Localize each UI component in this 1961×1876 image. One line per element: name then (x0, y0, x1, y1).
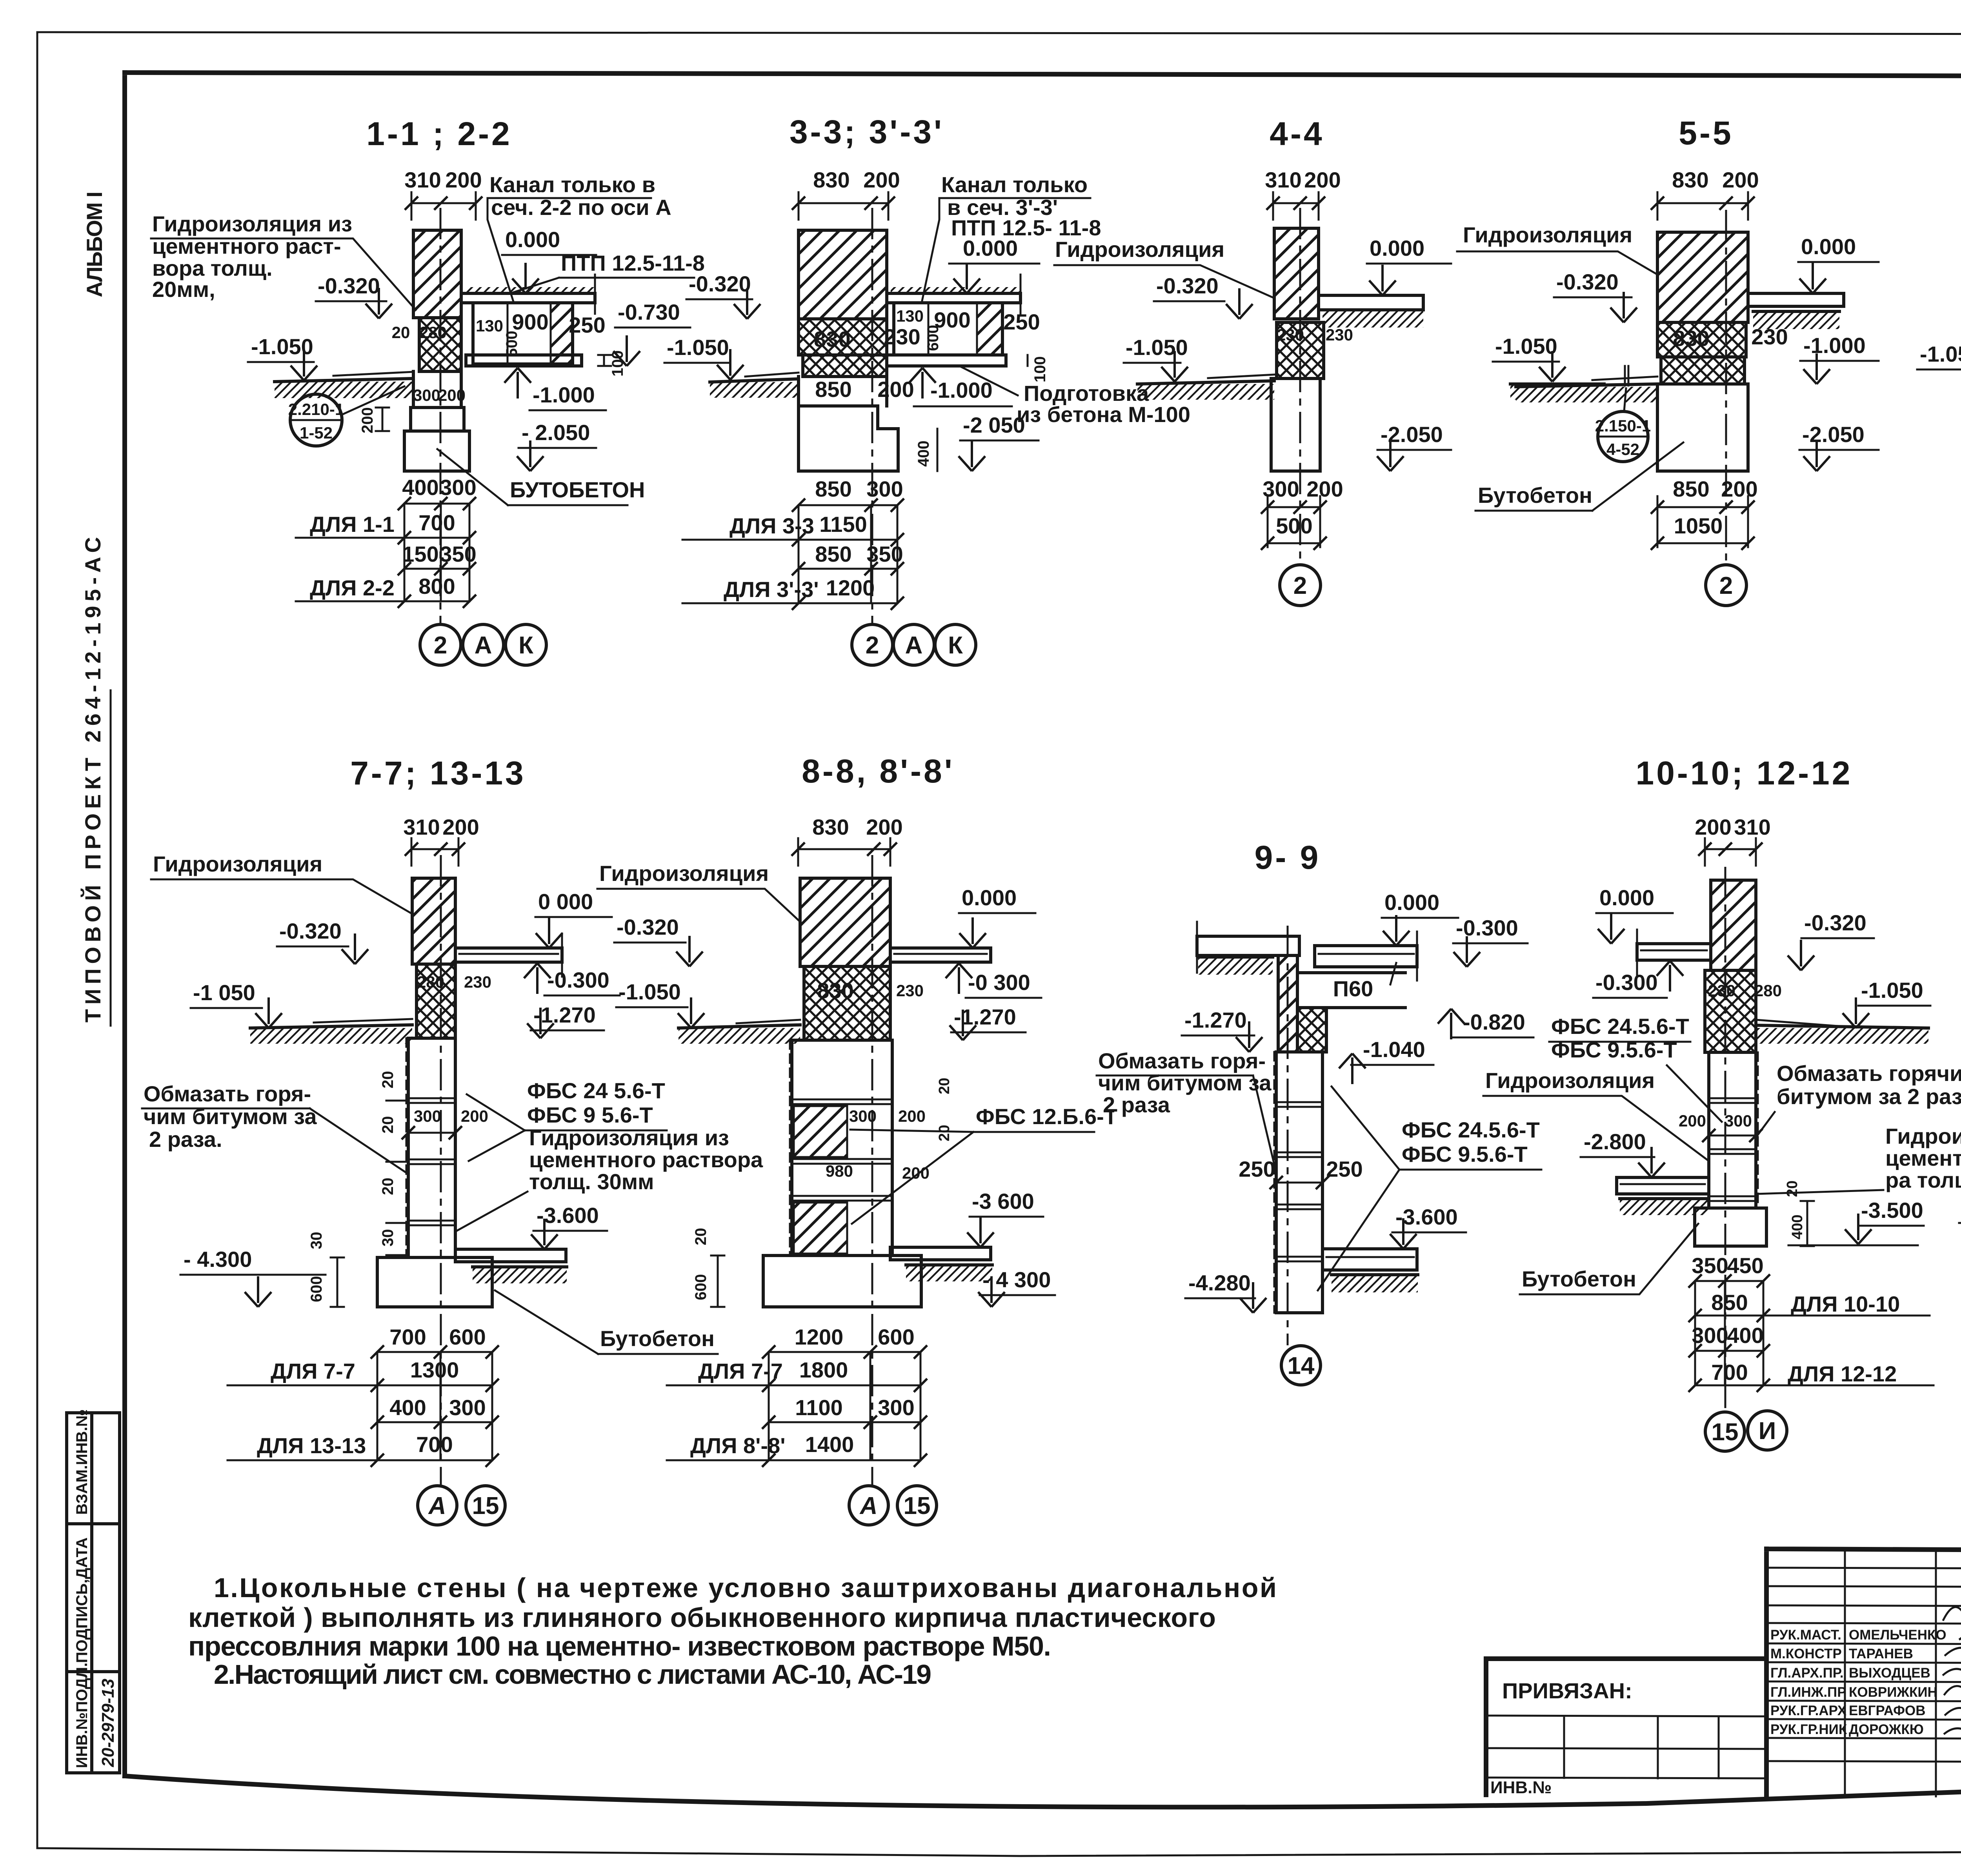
svg-text:1.Цокольные стены ( на черт: 1.Цокольные стены ( на чертеже условно з… (214, 1572, 1277, 1603)
svg-text:0.000: 0.000 (1801, 234, 1856, 259)
S9 monolith cross-hatch (1297, 1008, 1326, 1052)
S3 dim table (682, 477, 904, 610)
S4 waterproofing label right (for 5-5) (1457, 222, 1657, 275)
svg-text:4-4: 4-4 (1270, 115, 1324, 152)
S10 level 0.000 left (1596, 885, 1673, 944)
svg-text:8-8, 8'-8': 8-8, 8'-8' (802, 753, 954, 790)
S5 axis line (1725, 210, 1727, 565)
svg-text:-2 050: -2 050 (963, 413, 1025, 437)
svg-text:ГЛ.АРХ.ПР.: ГЛ.АРХ.ПР. (1770, 1665, 1844, 1681)
svg-text:-1.270: -1.270 (533, 1003, 596, 1027)
svg-text:ФБС 12.Б.6-Т: ФБС 12.Б.6-Т (976, 1104, 1117, 1129)
S3 level -1.000 underside (909, 368, 1012, 406)
S1 level -1.000 underside (504, 368, 606, 410)
svg-text:БУТОБЕТОН: БУТОБЕТОН (510, 477, 645, 502)
svg-text:20: 20 (392, 323, 410, 342)
S7 level -0.300 underside (524, 963, 620, 995)
S3 floor slab right (887, 275, 1021, 314)
svg-text:битумом за 2 раза: битумом за 2 раза (1777, 1084, 1961, 1109)
S3 ground left (710, 373, 799, 398)
svg-text:200: 200 (438, 386, 466, 404)
svg-text:-4.280: -4.280 (1188, 1270, 1251, 1295)
S7 FBS block column (406, 1038, 455, 1257)
S9 level -0.300 (1453, 915, 1528, 967)
left bottom stamp column (67, 1409, 120, 1773)
svg-text:ИНВ.№ПОДЛ.: ИНВ.№ПОДЛ. (73, 1663, 91, 1768)
svg-text:ДЛЯ 10-10: ДЛЯ 10-10 (1791, 1292, 1900, 1316)
svg-text:ФБС 24 5.6-Т: ФБС 24 5.6-Т (527, 1078, 665, 1103)
svg-text:ВЗАМ.ИНВ.№: ВЗАМ.ИНВ.№ (73, 1409, 91, 1515)
S8 FBS label (850, 1104, 1117, 1224)
svg-text:130: 130 (896, 307, 924, 325)
S10 waterproofing label (1483, 1068, 1709, 1161)
S7 level -4.300 (180, 1247, 326, 1307)
svg-text:АЛЬБОМ I: АЛЬБОМ I (82, 191, 107, 297)
svg-text:500: 500 (1276, 513, 1312, 538)
svg-text:200: 200 (902, 1164, 930, 1182)
svg-text:0.000: 0.000 (1370, 236, 1424, 260)
svg-text:цементного раство-: цементного раство- (1885, 1146, 1961, 1170)
S5 ground left with drain (1516, 366, 1657, 402)
svg-text:-0.300: -0.300 (547, 968, 609, 992)
S10 level -1.050 right (1843, 978, 1930, 1028)
svg-text:5-5: 5-5 (1679, 115, 1733, 151)
S10 level -2.800 (1581, 1129, 1665, 1177)
svg-text:прессовлния марки 100 на це: прессовлния марки 100 на цементно- извес… (188, 1631, 1051, 1661)
svg-text:И: И (1759, 1417, 1776, 1445)
svg-text:ПТП 12.5- 11-8: ПТП 12.5- 11-8 (951, 215, 1101, 240)
S9 block column (1274, 1052, 1322, 1313)
S10 FBS labels (1549, 1014, 1722, 1122)
svg-text:1150: 1150 (819, 512, 867, 537)
S7 bitumen label (142, 1081, 406, 1173)
svg-text:чим битумом за: чим битумом за (1098, 1070, 1272, 1095)
svg-text:200: 200 (442, 815, 479, 839)
S3 plinth cross-hatch band 2 (803, 355, 887, 377)
S7 level -1.270 (527, 1003, 604, 1038)
svg-text:ПТП 12.5-11-8: ПТП 12.5-11-8 (561, 251, 705, 275)
svg-text:2: 2 (1719, 572, 1733, 599)
svg-text:500: 500 (503, 331, 520, 357)
S9 level 0.000 (1382, 890, 1458, 946)
signatures squiggles (1943, 1607, 1961, 1738)
svg-text:700: 700 (418, 510, 455, 535)
svg-text:20мм,: 20мм, (152, 277, 215, 302)
S1 level 0.000 (502, 227, 596, 293)
svg-text:200: 200 (1721, 477, 1757, 501)
S4 axis circle 2 (1280, 565, 1321, 606)
svg-text:400: 400 (1789, 1215, 1806, 1239)
svg-text:-0.320: -0.320 (617, 915, 679, 939)
svg-text:Гидроизоляция: Гидроизоляция (1485, 1068, 1655, 1093)
svg-text:400: 400 (1727, 1323, 1763, 1348)
svg-text:ра толщ. 30мм: ра толщ. 30мм (1885, 1168, 1961, 1192)
S8 ground left (679, 1020, 800, 1044)
S3 wall stem below (799, 377, 914, 406)
S10 level -0.300 left underside (1593, 961, 1683, 998)
svg-text:ПОДПИСЬ,ДАТА: ПОДПИСЬ,ДАТА (73, 1538, 91, 1663)
S1 level -2.050 (517, 420, 596, 471)
svg-text:-0 300: -0 300 (968, 970, 1030, 995)
svg-text:20: 20 (379, 1116, 397, 1134)
svg-text:350: 350 (1692, 1253, 1728, 1278)
S6 level -1.050 left (1917, 342, 1961, 385)
svg-text:толщ. 30мм: толщ. 30мм (529, 1169, 654, 1194)
S1 foundation step (411, 408, 464, 431)
S4 foundation column (1271, 378, 1320, 471)
svg-text:Гидроизоляция из: Гидроизоляция из (529, 1125, 729, 1150)
S1 prep slab under channel (466, 355, 582, 366)
S5 foundation (1657, 384, 1748, 471)
S8 top dimension 830/200 (791, 815, 903, 866)
S1 floor slab right (461, 275, 595, 314)
S8 foundation (763, 1256, 921, 1307)
S9 level -3.600 (1390, 1205, 1466, 1249)
svg-text:230: 230 (884, 324, 920, 349)
svg-text:-1 050: -1 050 (193, 980, 255, 1005)
S10 left slab at -2.800 (1617, 1177, 1709, 1215)
notes paragraph (188, 1572, 1277, 1690)
svg-text:0.000: 0.000 (505, 227, 560, 252)
svg-text:200: 200 (461, 1107, 488, 1125)
S5 detail bubble 2.150-1/4-52 (1595, 388, 1651, 462)
svg-text:ФБС 24.5.6-Т: ФБС 24.5.6-Т (1402, 1117, 1540, 1142)
S3 level -2.050 (959, 413, 1039, 471)
S8 level -1.050 left (616, 979, 704, 1028)
svg-text:ДЛЯ 1-1: ДЛЯ 1-1 (310, 512, 395, 537)
svg-text:-1.050: -1.050 (1126, 335, 1188, 360)
svg-text:-0.320: -0.320 (279, 919, 342, 943)
svg-text:Обмазать горя-: Обмазать горя- (144, 1081, 311, 1106)
S8 dim table (667, 1325, 927, 1467)
S5 floor slab right (1748, 293, 1844, 329)
S5 top dimension 830/200 (1651, 167, 1759, 220)
svg-text:700: 700 (416, 1432, 453, 1457)
svg-text:450: 450 (1727, 1253, 1763, 1278)
svg-text:200: 200 (1695, 815, 1731, 839)
svg-text:30: 30 (308, 1232, 325, 1250)
S3 prep slab (887, 355, 1006, 366)
S8 level -0.320 left (614, 915, 703, 966)
svg-text:230: 230 (1277, 326, 1304, 344)
svg-text:цементного раст-: цементного раст- (152, 234, 341, 258)
S4 plinth cross-hatch (1277, 322, 1324, 378)
S3 level -0.320 (686, 271, 760, 319)
S1 detail bubble 2.210-1/1-52 (288, 386, 404, 446)
svg-text:ФБС 9.5.6-Т: ФБС 9.5.6-Т (1402, 1142, 1528, 1166)
svg-text:200: 200 (898, 1107, 926, 1125)
svg-text:Бутобетон: Бутобетон (1522, 1266, 1636, 1291)
svg-text:Бутобетон: Бутобетон (600, 1326, 715, 1351)
S5 level -2.050 (1799, 422, 1879, 471)
S1 level -1.050 (248, 334, 317, 380)
svg-text:830: 830 (1673, 326, 1709, 351)
svg-text:980: 980 (826, 1162, 853, 1180)
svg-text:-1.000: -1.000 (1803, 333, 1866, 358)
svg-text:20: 20 (936, 1125, 953, 1141)
svg-text:Гидроизоляция: Гидроизоляция (599, 861, 769, 886)
S8 level 0.000 (959, 885, 1035, 948)
svg-text:-0.300: -0.300 (1595, 970, 1658, 995)
svg-text:200: 200 (877, 377, 914, 402)
svg-text:-3.500: -3.500 (1861, 1198, 1923, 1223)
svg-text:ДЛЯ 7-7: ДЛЯ 7-7 (698, 1359, 783, 1383)
svg-text:250: 250 (1003, 309, 1040, 334)
S9 left slab (1197, 922, 1299, 975)
S3 level -1.050 (664, 335, 744, 380)
svg-text:ДЛЯ 8'-8': ДЛЯ 8'-8' (690, 1433, 786, 1458)
svg-text:0.000: 0.000 (1384, 890, 1439, 915)
svg-text:600: 600 (449, 1325, 486, 1349)
svg-text:2 раза: 2 раза (1103, 1092, 1170, 1117)
S8 brick wall (800, 878, 890, 966)
S3 foundation block with notch (799, 406, 898, 471)
svg-text:250: 250 (1326, 1157, 1363, 1181)
S5 brick wall (1657, 232, 1748, 322)
S10 dim 200/300 (1679, 1112, 1763, 1142)
S8 axis line (871, 855, 873, 1486)
S5 level -0.320 (1554, 269, 1637, 322)
S8 slab right at -3.600 (890, 1247, 992, 1281)
S8 level -4.300 (978, 1267, 1055, 1307)
svg-text:2.210-1: 2.210-1 (288, 400, 344, 419)
svg-text:Гидроизоляция из: Гидроизоляция из (1885, 1124, 1961, 1148)
svg-text:Бутобетон: Бутобетон (1478, 483, 1592, 508)
svg-text:Гидроизоляция: Гидроизоляция (1055, 237, 1224, 262)
svg-text:-3.600: -3.600 (1395, 1205, 1458, 1229)
S1 axis line (440, 208, 442, 624)
svg-text:Гидроизоляция из: Гидроизоляция из (152, 211, 352, 236)
svg-text:1050: 1050 (1674, 513, 1723, 538)
svg-text:-3.600: -3.600 (537, 1203, 599, 1228)
S4 ground right (1510, 384, 1604, 400)
svg-text:130: 130 (476, 317, 503, 335)
svg-text:7-7; 13-13: 7-7; 13-13 (350, 755, 526, 792)
S3 top dimension 830/200 (792, 167, 900, 220)
S8 floor slab right (890, 948, 991, 962)
title block: privyazan box (1486, 1659, 1766, 1797)
svg-text:850: 850 (815, 477, 851, 501)
svg-text:300: 300 (849, 1107, 877, 1125)
S7 slab at -3.600 right (455, 1249, 567, 1283)
S7 level -3.600 (531, 1203, 607, 1249)
svg-text:310: 310 (1734, 815, 1770, 839)
S9 level -1.040 (1339, 1037, 1433, 1084)
svg-text:280: 280 (417, 973, 444, 991)
S4 top dimension 310/200 (1265, 167, 1341, 220)
S1 label PTP slab (514, 251, 705, 292)
svg-text:150: 150 (402, 542, 438, 566)
svg-text:9- 9: 9- 9 (1255, 839, 1321, 876)
svg-text:РУК.МАСТ.: РУК.МАСТ. (1770, 1627, 1841, 1643)
S1 level -0.320 (316, 273, 392, 318)
S4 brick wall (1274, 228, 1319, 319)
svg-text:ТИПОВОЙ ПРОЕКТ 264-12-195-АС: ТИПОВОЙ ПРОЕКТ 264-12-195-АС (80, 536, 105, 1023)
S10 dims 50/400 rotated (1784, 1181, 1814, 1246)
svg-text:0.000: 0.000 (1599, 885, 1654, 910)
svg-text:280: 280 (419, 323, 447, 342)
svg-text:1-1 ; 2-2: 1-1 ; 2-2 (366, 115, 512, 152)
S3 brick wall (799, 230, 887, 319)
svg-text:600: 600 (308, 1276, 325, 1302)
svg-text:100: 100 (1031, 356, 1049, 382)
S7 plinth cross-hatch (417, 964, 455, 1038)
S7 brick wall (412, 878, 455, 964)
svg-text:200: 200 (445, 167, 482, 192)
svg-text:К: К (948, 632, 963, 659)
S3 channel box (894, 303, 1040, 355)
svg-text:Канал только: Канал только (941, 172, 1088, 197)
svg-text:300: 300 (440, 475, 476, 500)
svg-text:830: 830 (812, 815, 849, 839)
svg-text:ОМЕЛЬЧЕНКО: ОМЕЛЬЧЕНКО (1849, 1627, 1946, 1643)
svg-text:-0.320: -0.320 (1156, 273, 1219, 298)
svg-text:20: 20 (692, 1228, 709, 1246)
S4 level -0.320 (1154, 273, 1253, 319)
svg-text:4-52: 4-52 (1606, 440, 1639, 459)
svg-text:300: 300 (1692, 1323, 1728, 1348)
svg-text:Гидроизоляция: Гидроизоляция (153, 852, 322, 876)
S9 slab right at -3.600 (1322, 1249, 1418, 1292)
svg-text:-0.300: -0.300 (1456, 915, 1518, 940)
S8 dims inside blocks (826, 1078, 953, 1182)
S7 level -1.050 (191, 980, 282, 1028)
svg-text:250: 250 (1239, 1157, 1275, 1181)
S7 level -0.320 (277, 919, 368, 964)
S8 waterproofing label (597, 861, 800, 922)
svg-text:200: 200 (359, 407, 376, 433)
svg-text:310: 310 (1265, 167, 1301, 192)
S1 butobeton label (437, 449, 645, 505)
S10 left slab (1637, 930, 1711, 977)
svg-text:РУК.ГР.НИК: РУК.ГР.НИК (1770, 1722, 1847, 1737)
svg-text:20: 20 (1784, 1181, 1801, 1197)
S7 dim 300/200 inside blocks (402, 1107, 488, 1139)
svg-text:850: 850 (1711, 1290, 1748, 1315)
svg-text:20: 20 (936, 1078, 953, 1094)
S7 axis line (440, 855, 442, 1486)
svg-text:850: 850 (815, 542, 851, 566)
S5 axis circle 2 (1706, 565, 1746, 606)
S7 waterproofing label (151, 852, 412, 914)
svg-text:300: 300 (878, 1395, 914, 1420)
S1 dim table (296, 475, 477, 608)
svg-text:2: 2 (866, 632, 879, 659)
S3 axis circles 2 A K (852, 624, 976, 665)
S7 dim table (227, 1325, 499, 1467)
svg-text:из бетона М-100: из бетона М-100 (1017, 402, 1190, 427)
S8 plinth cross-hatch (804, 966, 890, 1040)
svg-text:250: 250 (569, 313, 605, 337)
S4 level 0.000 (1367, 236, 1451, 295)
S9 wall brick upper (1278, 955, 1297, 1052)
S1 top dimension 310/200 (404, 167, 482, 220)
S4 axis line (1299, 208, 1301, 565)
S8 dims 20/600 rotated left (692, 1228, 724, 1307)
S10 bitumen label (1756, 1061, 1961, 1137)
svg-text:- 2.050: - 2.050 (522, 420, 590, 445)
svg-text:П60: П60 (1333, 976, 1373, 1001)
S9 bitumen label (1097, 1048, 1276, 1173)
S1 dim 100 rotated (598, 350, 626, 377)
svg-text:350: 350 (440, 542, 476, 566)
svg-text:830: 830 (817, 978, 853, 1003)
S10 brick wall (1711, 880, 1756, 970)
svg-text:830: 830 (813, 167, 850, 192)
svg-text:350: 350 (866, 542, 903, 566)
svg-text:300: 300 (413, 386, 440, 404)
S10 dim table (1688, 1253, 1934, 1392)
S9 axis line (1287, 926, 1289, 1345)
svg-text:2: 2 (434, 632, 447, 659)
svg-text:РУК.ГР.АРХ: РУК.ГР.АРХ (1770, 1703, 1847, 1718)
svg-text:20: 20 (379, 1178, 397, 1195)
S3 plinth cross-hatch band 1 (799, 319, 887, 355)
svg-text:200: 200 (1304, 167, 1341, 192)
S7 ground left (250, 1019, 412, 1044)
S4 bottom dims (1261, 477, 1343, 550)
S9 level -0.820 (1438, 1009, 1534, 1039)
svg-text:200: 200 (866, 815, 902, 839)
svg-text:КОВРИЖКИН: КОВРИЖКИН (1849, 1685, 1937, 1700)
svg-text:2.150-1: 2.150-1 (1595, 417, 1651, 435)
S5 plinth cross-hatch band 1 (1657, 322, 1746, 357)
svg-text:-0.320: -0.320 (1556, 269, 1619, 294)
S3 axis line (871, 208, 873, 624)
svg-text:-0.820: -0.820 (1463, 1010, 1525, 1034)
svg-text:100: 100 (609, 350, 626, 377)
S9 P60 channel (1297, 963, 1405, 1008)
S8 level -1.270 (950, 1004, 1026, 1040)
S3 level 0.000 (949, 236, 1039, 293)
svg-text:А: А (905, 632, 923, 659)
svg-text:310: 310 (403, 815, 440, 839)
S10 top dimension 200/310 (1695, 815, 1770, 866)
S3 dim 400 rotated (915, 429, 937, 471)
svg-text:20: 20 (379, 1071, 397, 1089)
svg-text:- 4.300: - 4.300 (184, 1247, 252, 1272)
S4 level -2.050 (1377, 422, 1451, 471)
S5 plinth cross-hatch band 2 (1661, 357, 1745, 384)
svg-text:-0.730: -0.730 (618, 300, 680, 324)
S1 brick wall (413, 230, 461, 318)
svg-text:- 4 300: - 4 300 (982, 1267, 1051, 1292)
S4 level -1.050 right (1493, 334, 1566, 382)
svg-text:Гидроизоляция: Гидроизоляция (1463, 222, 1632, 247)
S9 axis circle 14 (1281, 1346, 1321, 1385)
svg-text:230: 230 (1708, 981, 1735, 1000)
svg-text:200: 200 (863, 167, 900, 192)
svg-text:-1.040: -1.040 (1363, 1037, 1425, 1062)
S4 waterproofing label left (1054, 237, 1274, 298)
S10 level -0.320 right (1788, 910, 1874, 970)
svg-text:230: 230 (896, 981, 924, 1000)
svg-text:400: 400 (389, 1395, 426, 1420)
S4 ground left (1137, 375, 1274, 400)
svg-text:2.Настоящий лист см. совмест: 2.Настоящий лист см. совместно с листами… (214, 1659, 931, 1690)
svg-text:600: 600 (692, 1274, 709, 1300)
svg-text:А: А (859, 1492, 878, 1519)
svg-text:-1.050: -1.050 (1861, 978, 1923, 1003)
svg-text:2 раза.: 2 раза. (149, 1127, 222, 1152)
S10 block column (1709, 1052, 1758, 1208)
S5 level 0.000 (1798, 234, 1879, 293)
svg-text:800: 800 (418, 574, 455, 599)
svg-text:14: 14 (1288, 1352, 1315, 1379)
svg-text:ДЛЯ 12-12: ДЛЯ 12-12 (1788, 1361, 1897, 1386)
svg-text:ДЛЯ 3'-3': ДЛЯ 3'-3' (724, 577, 819, 602)
svg-text:400: 400 (915, 440, 932, 467)
